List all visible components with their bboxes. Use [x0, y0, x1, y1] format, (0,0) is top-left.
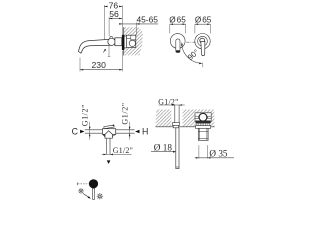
left tab: [195, 116, 198, 119]
spout front bar: [176, 39, 180, 51]
ball joint: [108, 38, 115, 45]
svg-text:G1/2": G1/2": [158, 97, 178, 106]
handle sleeve: [198, 128, 208, 140]
dim Ø65 left: [169, 16, 186, 34]
escutcheon plate (edge-on, black): [122, 35, 124, 50]
right supply pipe: [116, 129, 135, 131]
handle lever: [201, 42, 205, 56]
G1/2 dim top: [158, 97, 185, 106]
left G1/2 dim line: [81, 104, 91, 140]
svg-text:G1/2": G1/2": [113, 146, 133, 155]
arrow H: [135, 130, 140, 133]
left foot: [102, 134, 105, 137]
svg-text:G1/2": G1/2": [120, 102, 129, 124]
wall hatch: [124, 27, 143, 55]
rotate arrow: [83, 193, 91, 198]
svg-text:230: 230: [92, 60, 107, 70]
dim 45-65: [119, 14, 158, 35]
pipe end cap line: [176, 166, 179, 168]
svg-text:H: H: [142, 126, 148, 136]
svg-text:Ø 35: Ø 35: [209, 148, 228, 158]
snowflake symbol (cold): [97, 193, 103, 199]
spout outlet: [176, 50, 181, 52]
cartridge circle plan: [199, 113, 207, 121]
pipe pocket cutout: [171, 109, 182, 126]
arrow C: [80, 130, 85, 133]
wall band hatch: [156, 109, 215, 127]
knob stem: [93, 188, 95, 199]
centerline dashes between circles: [186, 41, 196, 43]
svg-text:65: 65: [202, 16, 212, 25]
dim Ø65 right: [195, 16, 212, 34]
svg-text:45-65: 45-65: [136, 14, 158, 24]
outlet flow arrow: [107, 160, 111, 164]
spout tube: [78, 39, 110, 53]
spout pipe (plan): [176, 128, 179, 169]
handle hub: [200, 38, 205, 43]
svg-text:G1/2": G1/2": [81, 104, 90, 126]
valve recess box: [195, 113, 211, 122]
outlet G1/2 dim: [102, 146, 133, 155]
escutcheon ring: [124, 36, 126, 48]
dim 76: [104, 0, 122, 39]
left supply pipe: [85, 129, 103, 131]
svg-text:C: C: [72, 127, 79, 137]
joint set screw notch: [110, 37, 113, 38]
svg-text:65: 65: [177, 16, 187, 25]
G1/2 supply pipe in wall: [175, 105, 179, 123]
faucet body cylinder: [115, 38, 122, 46]
lid corner dot: [113, 125, 115, 127]
right foot: [112, 134, 115, 136]
spout pipe flange nut: [172, 123, 179, 126]
svg-text:Ø: Ø: [195, 16, 202, 25]
mounting plate (dark): [196, 121, 211, 124]
dim 56: [109, 5, 122, 36]
spout escutcheon circle: [170, 34, 185, 49]
svg-text:Ø: Ø: [169, 16, 176, 25]
wall face line: [123, 27, 125, 55]
wall face line: [156, 126, 215, 128]
svg-text:56: 56: [109, 9, 119, 19]
sun symbol (hot): [78, 188, 84, 194]
leader line under joint: [108, 45, 111, 57]
outlet pipe down: [105, 138, 107, 154]
handle inner circle: [198, 36, 208, 46]
body rect: [102, 129, 115, 135]
right tab: [208, 116, 211, 119]
dim Ø35: [195, 145, 234, 158]
knob dashed line: [77, 182, 88, 185]
cartridge circle: [129, 40, 135, 46]
knob (black ball): [89, 179, 98, 188]
dim Ø18: [151, 142, 176, 152]
valve box in wall: [126, 35, 135, 47]
right G1/2 dim line: [120, 102, 130, 139]
90 degree rotation arc: [181, 42, 203, 67]
knurled ring: [197, 123, 209, 125]
small flow arrow under body: [103, 49, 106, 53]
body lid: [104, 125, 114, 129]
handle escutcheon circle: [195, 34, 210, 49]
svg-text:Ø 18: Ø 18: [154, 142, 173, 152]
cartridge dome (pentagon): [105, 131, 112, 139]
sleeve flange: [196, 126, 211, 129]
dim 230: [80, 51, 123, 72]
